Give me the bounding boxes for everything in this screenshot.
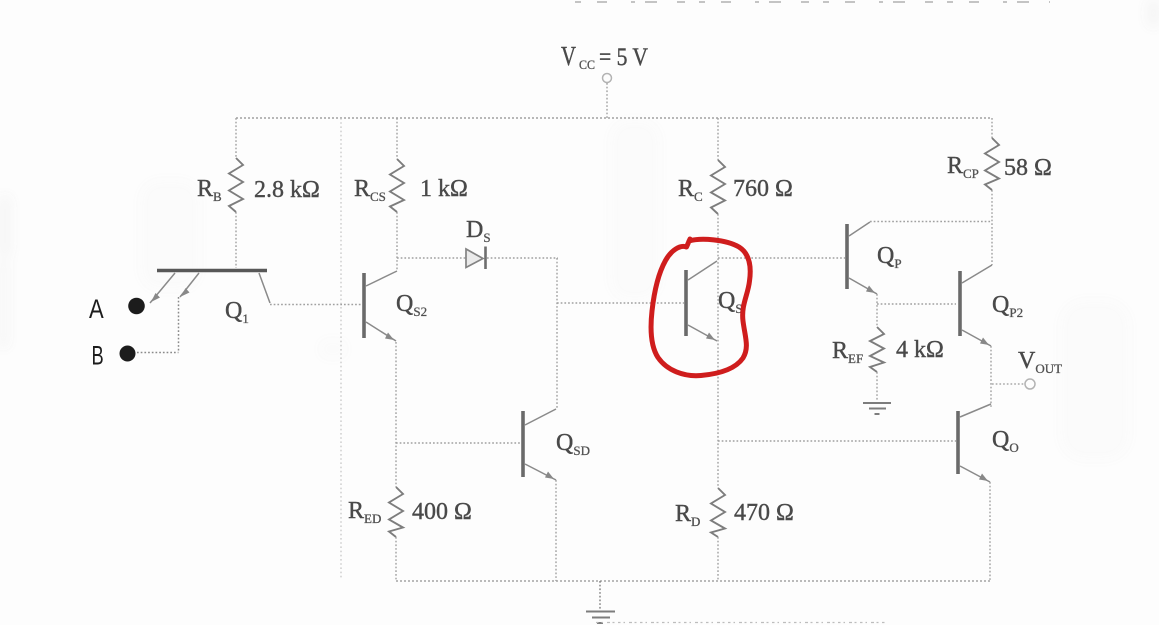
diode DS anode wire [397, 257, 466, 259]
top edge cut-off text specks [575, 1, 1050, 3]
svg-text:Q1: Q1 [225, 298, 249, 326]
wire QP emitter to REF [876, 294, 878, 327]
svg-text:RB: RB [197, 176, 222, 204]
svg-text:QS2: QS2 [396, 291, 427, 319]
svg-text:1 kΩ: 1 kΩ [420, 176, 468, 202]
resistor RCS vertical wires [396, 118, 398, 271]
wire QP2 emitter down [990, 346, 992, 407]
transistor QS2 emitter [366, 322, 396, 341]
transistor QP2 collector [962, 265, 992, 283]
wire Vout [992, 383, 1024, 385]
svg-text:58 Ω: 58 Ω [1004, 155, 1052, 181]
transistor QP2 emitter [962, 330, 991, 346]
svg-text:400 Ω: 400 Ω [412, 499, 472, 525]
wire QD base [718, 440, 956, 442]
svg-text:QP: QP [877, 243, 902, 271]
transistor QD emitter [960, 466, 990, 482]
wire RC bottom to RD top [717, 214, 719, 488]
transistor QS2 bar [362, 273, 366, 338]
transistor Q1 base bar [157, 269, 267, 273]
svg-text:RD: RD [675, 501, 700, 529]
resistor REF zigzag [870, 327, 884, 372]
svg-text:QS: QS [718, 288, 743, 316]
transistor QD bar [956, 411, 960, 474]
svg-text:RC: RC [678, 176, 703, 204]
svg-text:2.8 kΩ: 2.8 kΩ [254, 177, 320, 203]
wire left vertical [340, 118, 342, 578]
wire QD emitter to bottom rail [989, 482, 991, 581]
wire REF to ground [876, 372, 878, 401]
Vcc terminal circle [603, 74, 612, 83]
transistor QS collector [688, 261, 717, 280]
resistor RCP zigzag [985, 138, 999, 190]
resistor RC zigzag [711, 160, 725, 214]
input B dot [120, 346, 136, 362]
Vout terminal circle [1025, 379, 1035, 389]
wire QP emitter to QP2 base [877, 303, 956, 305]
input A dot [128, 298, 145, 315]
annotation red loop around QS [651, 239, 750, 376]
svg-text:REF: REF [832, 338, 863, 366]
svg-text:4 kΩ: 4 kΩ [896, 337, 944, 363]
svg-text:V: V [561, 41, 576, 71]
resistor RC vertical wire [717, 118, 719, 160]
transistor Q1 emitter 2 [137, 273, 199, 353]
wire Vcc stem [606, 83, 608, 118]
Vcc label [561, 41, 648, 72]
wire RD bottom [717, 537, 719, 581]
wire bottom rail [396, 580, 990, 582]
ground (below REF) [863, 403, 891, 414]
wire QSD base [396, 442, 521, 444]
svg-text:RCS: RCS [354, 176, 386, 204]
paper smudges [0, 0, 1159, 348]
diode DS cathode wire [487, 257, 558, 259]
wire RED bottom [395, 537, 397, 581]
transistor QP bar [845, 224, 849, 289]
svg-text:QSD: QSD [556, 430, 590, 458]
svg-text:QO: QO [992, 427, 1019, 455]
ground (main, bottom center) [586, 581, 615, 623]
bottom edge cut-off text specks [596, 622, 887, 624]
resistor RB zigzag [229, 158, 243, 212]
diode DS [466, 247, 486, 270]
wire QSD emitter to bottom rail [555, 480, 557, 581]
transistor QS2 collector [366, 271, 397, 286]
transistor QSD bar [521, 411, 525, 477]
svg-text:CC: CC [579, 58, 595, 72]
transistor Q1 emitter 1 [150, 273, 175, 303]
transistor QSD emitter [525, 464, 556, 480]
svg-text:VOUT: VOUT [1018, 348, 1062, 376]
svg-text:= 5 V: = 5 V [599, 44, 648, 71]
resistor RED zigzag [389, 487, 403, 537]
transistor QS bar [684, 270, 688, 336]
wire Q1 collector to QS2 base [270, 304, 362, 306]
svg-text:A: A [89, 294, 104, 324]
transistor Q1 collector [259, 273, 270, 303]
svg-text:RCP: RCP [947, 153, 979, 181]
transistor QSD collector [525, 409, 556, 425]
resistor RCP vertical wires [991, 118, 993, 265]
transistor QD collector [960, 404, 991, 417]
resistor RD zigzag [711, 488, 725, 537]
wire node to QS base [557, 302, 684, 304]
resistor RB vertical wires [235, 118, 237, 268]
wire QP collector to RCP [870, 221, 992, 223]
transistor QP collector [849, 222, 870, 236]
resistor RCS zigzag [390, 159, 404, 212]
wire QP base [718, 257, 845, 259]
svg-text:QP2: QP2 [992, 292, 1023, 320]
wire node to QSD collector [556, 258, 558, 409]
transistor QP emitter [849, 278, 877, 294]
wire QS2 emitter down to RED [395, 342, 397, 487]
svg-text:RED: RED [348, 498, 381, 526]
svg-text:DS: DS [466, 217, 491, 245]
svg-text:B: B [92, 341, 104, 371]
transistor QS emitter [688, 325, 717, 341]
wire top rail [236, 117, 992, 119]
svg-text:760 Ω: 760 Ω [733, 176, 793, 202]
svg-text:470 Ω: 470 Ω [734, 500, 794, 526]
transistor QP2 bar [958, 271, 962, 336]
